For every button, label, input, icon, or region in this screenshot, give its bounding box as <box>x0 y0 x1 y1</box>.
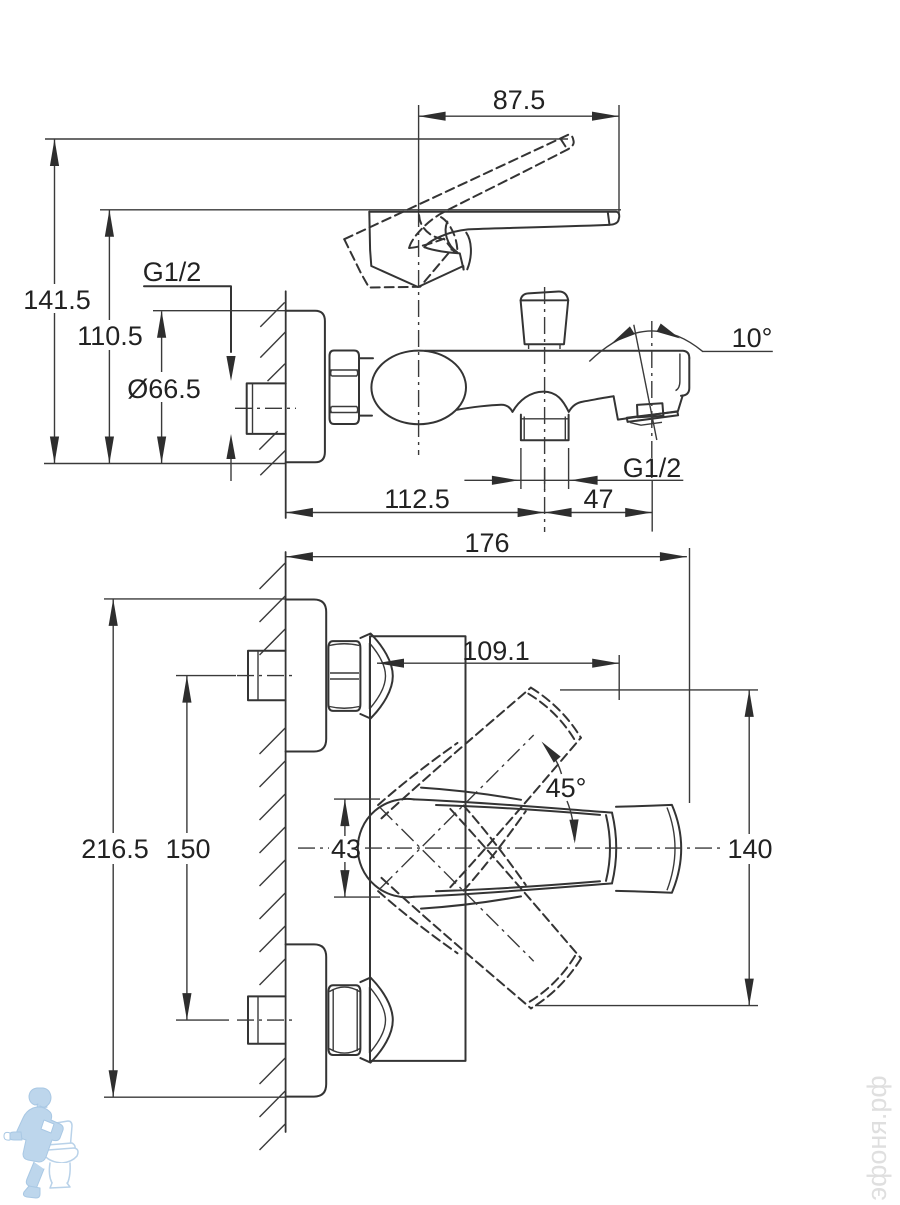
mounting bolt lower <box>248 996 286 1043</box>
dimension 216.5 arrow down <box>109 1070 118 1097</box>
aerator screen box <box>637 403 663 417</box>
label G1/2 outlet arrow right <box>492 476 519 485</box>
dimension 47 arrow right <box>625 508 652 517</box>
svg-text:150: 150 <box>165 834 210 864</box>
dimension 176 line <box>286 556 687 558</box>
conical washer lower <box>360 978 392 1063</box>
dimension 216.5 line <box>112 599 114 833</box>
svg-text:G1/2: G1/2 <box>143 257 202 287</box>
extension line 47 right <box>651 480 653 531</box>
centerline cartridge axis <box>418 210 420 455</box>
dimension 109.1 arrow right <box>592 659 619 668</box>
dimension dia66.5 arrow up <box>157 311 166 338</box>
dimension 150 line <box>186 676 188 833</box>
extension line 109.1 right <box>618 655 620 700</box>
dimension 112.5 line <box>286 512 545 514</box>
extension line 43 bottom <box>334 896 380 898</box>
extension line 87.5 right <box>618 105 620 215</box>
centerline horizontal <box>298 847 329 849</box>
aerator centerline vertical <box>651 321 653 478</box>
lever raised position (dashed) <box>344 134 602 308</box>
dimension dia66.5 arrow down <box>157 437 166 464</box>
escutcheon flange side view <box>286 311 325 463</box>
spout end inner shading <box>676 354 680 391</box>
extension line (lever top datum) <box>100 209 621 211</box>
dimension 112.5 arrow right <box>518 508 545 517</box>
body underside <box>457 392 614 412</box>
svg-text:110.5: 110.5 <box>77 321 143 351</box>
body tube top edge <box>425 351 689 358</box>
wall line top view <box>285 291 287 518</box>
svg-text:140: 140 <box>727 834 772 864</box>
dimension 43 arrow up <box>340 799 349 826</box>
dimension 140 arrow up <box>745 690 754 717</box>
spout front view <box>616 805 681 893</box>
aerator housing <box>614 396 683 420</box>
bolt thread line lower <box>257 996 259 1043</box>
extension line 216.5 bottom <box>104 1096 286 1098</box>
bolt centerline upper <box>237 675 297 677</box>
label G1/2 outlet arrow left <box>571 476 598 485</box>
angle 45deg arc upper <box>545 746 562 774</box>
dimension 141.5 arrow down <box>50 437 59 464</box>
extension line outlet right <box>568 448 570 489</box>
handle lever raised 45 up (dashed) <box>373 667 602 896</box>
body spout right end <box>681 358 689 396</box>
diverter knob top face <box>521 291 569 300</box>
hex nut side view <box>330 351 360 425</box>
svg-text:87.5: 87.5 <box>493 85 546 115</box>
mounting bolt upper <box>248 651 286 701</box>
dimension 112.5 arrow left <box>286 508 313 517</box>
angle 10deg reference line <box>702 350 773 352</box>
wall line bottom view <box>285 552 287 1132</box>
angle 10deg arc <box>589 331 702 362</box>
svg-text:141.5: 141.5 <box>23 285 91 315</box>
dimension 109.1 line <box>377 662 619 664</box>
extension line base (pipe-axis datum) <box>44 463 286 465</box>
extension line 216.5 top <box>104 598 286 600</box>
dimension 109.1 arrow left <box>377 659 404 668</box>
aerator bottom lip <box>630 422 662 425</box>
outlet nipple thread lines <box>522 417 569 441</box>
diverter knob centerline <box>544 287 546 532</box>
escutcheon flange upper <box>286 600 327 752</box>
inlet pipe centerline <box>235 407 296 409</box>
svg-text:112.5: 112.5 <box>384 484 450 514</box>
wall hatching top view <box>260 302 284 327</box>
leader line below pipe <box>230 459 232 481</box>
svg-text:47: 47 <box>583 484 613 514</box>
collar <box>359 358 373 415</box>
extension line outlet left <box>520 448 522 489</box>
dimension 216.5 arrow up <box>109 599 118 626</box>
dimension 47 line <box>545 512 653 514</box>
dimension 47 arrow left <box>545 508 572 517</box>
handle lever lowered 45 down (dashed) <box>373 801 602 1030</box>
svg-text:176: 176 <box>464 528 509 558</box>
dimension 150 arrow down <box>182 993 191 1020</box>
outlet nipple <box>521 415 569 441</box>
svg-text:45°: 45° <box>546 773 587 803</box>
dimension 43 line upper <box>344 799 346 836</box>
dimension 110.5 arrow up <box>105 210 114 237</box>
extension line 43 top <box>334 798 380 800</box>
centerline cartridge axis upper <box>418 105 420 210</box>
angle 10deg arrow left <box>612 326 635 343</box>
dimension 110.5 line <box>108 210 110 320</box>
bolt thread line upper <box>257 651 259 701</box>
dimension 140 line lower <box>748 864 750 1006</box>
extension line 150 bottom <box>176 1019 229 1021</box>
svg-text:216.5: 216.5 <box>81 834 149 864</box>
svg-text:G1/2: G1/2 <box>623 453 682 483</box>
leader arrow down G1/2 <box>226 356 235 381</box>
dimension 140 arrow down <box>745 979 754 1006</box>
inlet pipe nipple <box>247 383 286 434</box>
angle 45deg arrow upper <box>542 742 561 763</box>
spout front inner line <box>667 808 675 891</box>
dimension 176 arrow left <box>286 552 313 561</box>
dimension 110.5 arrow down <box>105 437 114 464</box>
angle 45deg arc lower <box>567 801 575 840</box>
lever and cartridge cap (solid) <box>369 212 619 287</box>
extension line 176 right <box>689 548 691 803</box>
dimension 87.5 arrow left <box>419 112 446 121</box>
body slab front view <box>370 636 466 1061</box>
extension line 140 top <box>560 689 758 691</box>
extension line 150 top <box>176 675 236 677</box>
extension line 140 bottom <box>535 1005 758 1007</box>
angle 10deg arrow right <box>657 324 681 339</box>
hex nut lower front view <box>328 985 360 1055</box>
svg-text:10°: 10° <box>732 323 773 353</box>
leader arrow up G1/2 <box>226 434 235 459</box>
dimension 87.5 arrow right <box>592 112 619 121</box>
dimension 140 line upper <box>748 690 750 834</box>
dimension dia66.5 line lower <box>161 402 163 463</box>
aerator tilted axis <box>634 325 657 440</box>
extension line top (raised-lever height datum) <box>45 138 568 140</box>
svg-text:43: 43 <box>331 834 361 864</box>
aerator bottom plate <box>627 412 678 422</box>
dimension 87.5 line <box>419 115 619 117</box>
inlet pipe thread line <box>252 383 254 434</box>
dimension 43 line lower <box>344 862 346 897</box>
centerline 45 down <box>380 808 533 961</box>
svg-text:Ø66.5: Ø66.5 <box>127 374 201 404</box>
dimension 176 arrow right <box>660 552 687 561</box>
outlet centerline tick <box>544 468 546 490</box>
hex nut upper front view <box>328 641 360 711</box>
dimension 150 arrow up <box>182 676 191 703</box>
dimension 43 arrow down <box>340 870 349 897</box>
diverter knob feet <box>529 344 560 349</box>
svg-text:эфоня.рф: эфоня.рф <box>862 1075 892 1200</box>
leader G1/2 wall pipe <box>144 286 231 352</box>
conical washer upper <box>360 634 392 719</box>
dimension dia66.5 line upper <box>161 312 163 373</box>
hex nut facet lines <box>331 369 358 371</box>
label G1/2 outlet line <box>464 479 683 481</box>
centerline 45 up <box>380 735 533 888</box>
escutcheon flange lower <box>286 944 327 1096</box>
extension line flange top <box>153 310 286 312</box>
angle 45deg arrow lower <box>569 819 578 843</box>
handle lever front view (solid) <box>358 788 616 909</box>
dimension 141.5 arrow up <box>50 139 59 166</box>
valve body ellipse <box>371 351 466 425</box>
svg-text:109.1: 109.1 <box>462 636 530 666</box>
logo plumber with toilet <box>4 1088 78 1198</box>
dimension 141.5 line <box>54 139 56 284</box>
diverter knob <box>521 300 569 344</box>
bolt centerline lower <box>237 1019 297 1021</box>
wall hatching bottom view <box>260 563 286 589</box>
